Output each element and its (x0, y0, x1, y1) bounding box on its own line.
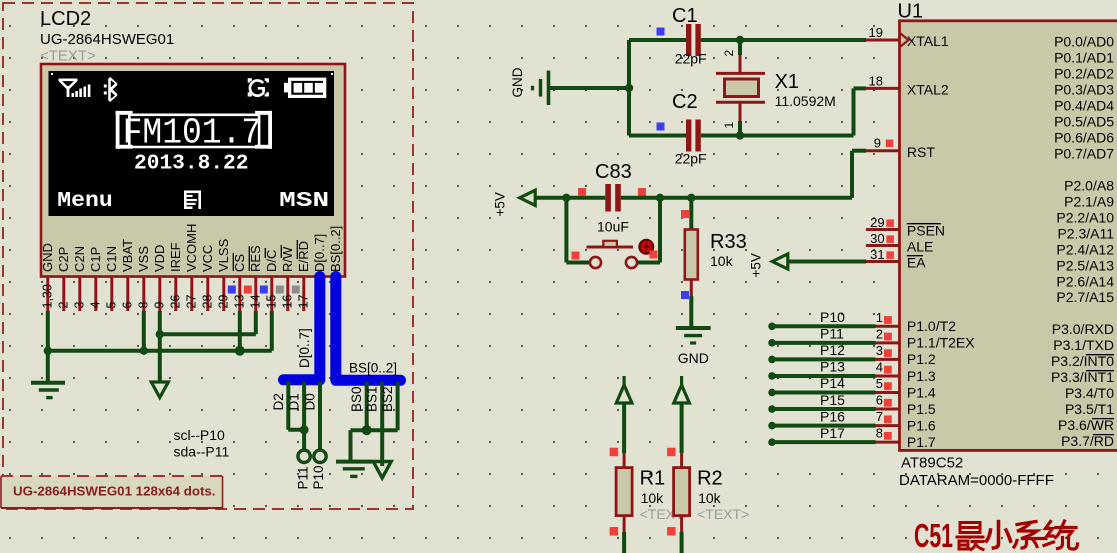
svg-text:X1: X1 (775, 71, 799, 93)
svg-text:16: 16 (280, 295, 294, 309)
LCD pin 13 CS (232, 253, 247, 311)
U1 reference (898, 1, 924, 23)
LCD pin 3 C2N (72, 246, 87, 311)
pin label P2.2/A10 (1056, 209, 1114, 225)
svg-text:P0.2/AD2: P0.2/AD2 (1054, 65, 1114, 81)
svg-text:R/W: R/W (280, 246, 295, 272)
marker R1 top (610, 448, 619, 457)
capacitor C83 (605, 184, 621, 212)
crystal X1 (716, 44, 765, 133)
LCD FM frame (116, 111, 272, 149)
svg-text:P0.6/AD6: P0.6/AD6 (1054, 129, 1114, 145)
pin 7 P1.6 (768, 408, 936, 433)
wire net B horizontal (160, 311, 256, 334)
wire +5V to C83 (535, 196, 605, 200)
note sda (174, 444, 230, 460)
LCD2 display module body (41, 64, 345, 277)
svg-text:2: 2 (722, 50, 736, 57)
LCD Menu text (57, 190, 113, 213)
pin label P0.6/AD6 (1054, 129, 1114, 145)
svg-text:P0.5/AD5: P0.5/AD5 (1054, 113, 1114, 129)
svg-text:P3.2/INT0: P3.2/INT0 (1051, 353, 1114, 369)
svg-text:P1.5: P1.5 (907, 401, 936, 417)
svg-text:R1: R1 (640, 468, 666, 490)
svg-text:29: 29 (870, 215, 884, 230)
LCD text placeholder (40, 48, 96, 65)
R1 reference (640, 468, 666, 490)
ground symbol LCD pin1 (31, 383, 65, 398)
marker button left (572, 252, 580, 260)
pin label P2.1/A9 (1064, 193, 1114, 209)
svg-text:18: 18 (869, 74, 883, 89)
svg-text:R33: R33 (710, 231, 747, 253)
svg-text:22pF: 22pF (675, 51, 707, 67)
label D2 (271, 393, 286, 410)
wire D1 (302, 382, 306, 450)
LCD pin 1,30 GND (40, 243, 55, 311)
capacitor C1 (686, 24, 701, 56)
svg-text:17: 17 (296, 295, 310, 309)
pin label P0.5/AD5 (1054, 113, 1114, 129)
pin 8 P1.7 (768, 425, 936, 450)
svg-text:3: 3 (72, 302, 86, 309)
svg-text:R2: R2 (697, 468, 723, 490)
pin 18 XTAL2 (866, 74, 949, 98)
svg-text:P2.2/A10: P2.2/A10 (1056, 209, 1114, 225)
svg-text:<TEXT>: <TEXT> (40, 48, 96, 65)
pin label P3.2/INT0 (1051, 353, 1114, 369)
svg-text:P3.5/T1: P3.5/T1 (1065, 401, 1114, 417)
svg-text:1: 1 (876, 310, 883, 325)
svg-text:9: 9 (152, 302, 166, 309)
marker C83 left (578, 188, 586, 196)
svg-text:6: 6 (120, 302, 134, 309)
svg-text:8: 8 (136, 302, 150, 309)
LCD FM101.7 text (123, 113, 262, 154)
bus D[0..7] (284, 277, 320, 380)
X1 pin1 number (722, 122, 736, 129)
svg-text:P0.1/AD1: P0.1/AD1 (1054, 49, 1114, 65)
subcircuit dashed border (3, 3, 413, 509)
svg-text:P1.6: P1.6 (907, 417, 936, 433)
R2 value (698, 490, 722, 506)
svg-text:+5V: +5V (493, 192, 508, 216)
wire button right leg (637, 198, 660, 263)
svg-text:AT89C52: AT89C52 (901, 455, 963, 472)
LCD list icon (184, 191, 201, 210)
LCD screen bluetooth icon (104, 77, 118, 102)
svg-text:10k: 10k (698, 490, 722, 506)
+5V terminal R2 (674, 376, 690, 403)
svg-text:P1.4: P1.4 (907, 384, 936, 400)
svg-text:10uF: 10uF (597, 219, 629, 235)
marker R2 bottom (667, 527, 676, 536)
schematic title C51 (914, 517, 1078, 553)
label BS1 (365, 386, 380, 412)
pin state marker 17 (292, 286, 300, 294)
capacitor C2 (686, 120, 701, 152)
svg-text:D0: D0 (303, 393, 318, 410)
svg-text:BS[0..2]: BS[0..2] (349, 361, 397, 376)
svg-text:10k: 10k (710, 253, 734, 269)
pin state marker 15 (260, 286, 268, 294)
svg-text:FM101.7: FM101.7 (123, 113, 262, 154)
svg-text:scl--P10: scl--P10 (174, 427, 226, 443)
pin label P2.7/A15 (1056, 289, 1114, 305)
C83 value (597, 219, 629, 235)
C1 reference (672, 5, 698, 27)
LCD pin 27 VCOMH (184, 224, 199, 311)
LCD pin 5 C1N (104, 246, 119, 311)
LCD2 reference label (40, 8, 91, 30)
subcircuit label box (1, 476, 223, 508)
wire D/C down (270, 311, 274, 351)
note scl (174, 427, 226, 443)
junction VSS/netA (140, 347, 148, 355)
svg-text:GND: GND (40, 243, 55, 272)
svg-text:P3.6/WR: P3.6/WR (1058, 417, 1114, 433)
svg-text:D/C: D/C (264, 250, 279, 272)
R1 text placeholder (640, 506, 692, 522)
X1 value (775, 93, 836, 109)
svg-text:VCOMH: VCOMH (184, 224, 199, 272)
svg-text:P3.3/INT1: P3.3/INT1 (1051, 369, 1114, 385)
svg-text:IREF: IREF (168, 242, 183, 272)
svg-text:P2.3/A11: P2.3/A11 (1057, 225, 1114, 241)
pushbutton (587, 240, 654, 268)
resistor R33 (685, 198, 698, 327)
svg-text:RST: RST (907, 144, 935, 160)
bus label D[0..7] (297, 328, 312, 368)
junction xtal pin1 (736, 131, 744, 139)
pin state marker 16 (276, 286, 284, 294)
pin label P3.3/INT1 (1051, 369, 1114, 385)
wire button left leg (566, 198, 589, 263)
marker R33 top (681, 210, 689, 218)
svg-text:CS: CS (232, 254, 247, 272)
svg-text:P1.3: P1.3 (907, 368, 936, 384)
svg-text:C1N: C1N (104, 246, 119, 272)
marker C83 right (638, 188, 646, 196)
op U1 body (900, 21, 1117, 451)
R33 reference (710, 231, 747, 253)
svg-text:BS[0..2]: BS[0..2] (328, 226, 343, 272)
X1 pin2 number (722, 50, 736, 57)
svg-text:MSN: MSN (279, 190, 329, 213)
bus label BS[0..2] (349, 361, 397, 376)
junction CS/netA (235, 346, 245, 356)
svg-text:XTAL1: XTAL1 (907, 33, 949, 49)
svg-text:7: 7 (876, 409, 883, 424)
GND label R33 (678, 350, 709, 366)
marker R2 top (667, 448, 676, 457)
wire C83 right (621, 196, 852, 200)
junction D2/D1 (300, 425, 309, 434)
svg-text:UG-2864HSWEG01 128x64 dots.: UG-2864HSWEG01 128x64 dots. (13, 484, 216, 499)
wire BS0 (365, 382, 369, 430)
pin label P0.4/AD4 (1054, 97, 1114, 113)
svg-text:P1.0/T2: P1.0/T2 (907, 318, 956, 334)
svg-text:VBAT: VBAT (120, 239, 135, 272)
svg-text:P15: P15 (820, 392, 845, 408)
svg-text:26: 26 (168, 295, 182, 309)
svg-text:LCD2: LCD2 (40, 8, 91, 30)
+5V terminal reset (493, 190, 536, 216)
junction VDD/netB (156, 330, 164, 338)
svg-text:P0.4/AD4: P0.4/AD4 (1054, 97, 1114, 113)
svg-text:XTAL2: XTAL2 (907, 82, 949, 98)
R2 text placeholder (697, 506, 749, 522)
svg-text:4: 4 (876, 359, 883, 374)
terminal P11 (298, 450, 310, 462)
svg-text:+5V: +5V (749, 253, 764, 277)
pin label P0.2/AD2 (1054, 65, 1114, 81)
svg-text:P17: P17 (820, 425, 845, 441)
resistor R2 (674, 403, 690, 553)
svg-text:P12: P12 (820, 342, 845, 358)
C83 reference (595, 161, 632, 183)
pin label P0.7/AD7 (1054, 145, 1114, 161)
svg-text:BS1: BS1 (365, 386, 380, 412)
svg-text:28: 28 (200, 295, 214, 309)
svg-text:P3.7/RD: P3.7/RD (1061, 433, 1114, 449)
LCD bus pin D[0..7] (312, 234, 327, 272)
svg-text:P2.0/A8: P2.0/A8 (1064, 177, 1114, 193)
pin label P3.6/WR (1058, 417, 1114, 433)
svg-text:1,30: 1,30 (40, 284, 54, 308)
LCD pin 29 VLSS (216, 238, 231, 311)
svg-text:2: 2 (56, 302, 70, 309)
marker button right (650, 251, 658, 259)
terminal arrow below VDD (151, 382, 168, 398)
wire VDD down to terminal (158, 311, 162, 382)
svg-text:C1: C1 (672, 5, 698, 27)
svg-text:P10: P10 (820, 309, 845, 325)
pin label P0.3/AD3 (1054, 81, 1114, 97)
svg-text:P0.3/AD3: P0.3/AD3 (1054, 81, 1114, 97)
pin label P2.5/A13 (1056, 257, 1114, 273)
svg-text:EA: EA (907, 255, 926, 271)
svg-text:BS2: BS2 (380, 386, 395, 412)
LCD value label (40, 31, 174, 48)
svg-text:P2.6/A14: P2.6/A14 (1056, 273, 1114, 289)
svg-text:<TEXT>: <TEXT> (697, 506, 749, 522)
wire C2 to XTAL2 (701, 88, 866, 135)
svg-text:ALE: ALE (907, 239, 933, 255)
svg-text:C2P: C2P (56, 247, 71, 272)
svg-text:P3.4/T0: P3.4/T0 (1065, 385, 1114, 401)
pin 1 P1.0/T2 (768, 309, 956, 334)
label D0 (303, 393, 318, 410)
terminal arrow BS1 (373, 462, 391, 479)
pin label P3.4/T0 (1065, 385, 1114, 401)
svg-text:P2.4/A12: P2.4/A12 (1056, 241, 1114, 257)
pin 29 PSEN (866, 215, 945, 239)
svg-text:P3.1/TXD: P3.1/TXD (1053, 337, 1114, 353)
svg-text:P3.0/RXD: P3.0/RXD (1052, 321, 1114, 337)
svg-text:1: 1 (722, 122, 736, 129)
label D1 (287, 393, 302, 410)
svg-text:P10: P10 (311, 465, 326, 489)
svg-text:P0.0/AD0: P0.0/AD0 (1054, 33, 1114, 49)
svg-text:C83: C83 (595, 161, 632, 183)
C1 value (675, 51, 707, 67)
wire CS down (238, 311, 242, 351)
X1 reference (775, 71, 799, 93)
U1 dataram (899, 472, 1054, 489)
pin 3 P1.2 (768, 342, 936, 367)
junction pin1/netA (44, 347, 52, 355)
svg-text:P11: P11 (820, 326, 844, 342)
wire bottom to C2 (629, 134, 686, 138)
wire net A horizontal (48, 349, 272, 353)
pin label P3.0/RXD (1052, 321, 1114, 337)
svg-text:RES: RES (248, 245, 263, 272)
pin label P0.1/AD1 (1054, 49, 1114, 65)
LCD pin 4 C1P (88, 247, 103, 311)
svg-text:27: 27 (184, 295, 198, 309)
svg-text:sda--P11: sda--P11 (174, 444, 230, 460)
LCD pin 16 R/W (280, 245, 295, 311)
svg-text:13: 13 (232, 295, 246, 309)
pin label P2.0/A8 (1064, 177, 1114, 193)
C2 reference (672, 91, 698, 113)
svg-text:10k: 10k (641, 490, 665, 506)
pin label P2.4/A12 (1056, 241, 1114, 257)
wire BS2 (396, 382, 400, 430)
pin 19 XTAL1 (866, 25, 949, 49)
ground symbol R33 (676, 328, 711, 343)
svg-text:2: 2 (876, 326, 883, 341)
svg-text:D1: D1 (287, 393, 302, 410)
svg-text:GND: GND (678, 350, 709, 366)
junction BS0 (362, 425, 372, 435)
svg-text:VCC: VCC (200, 245, 215, 272)
svg-text:P2.7/A15: P2.7/A15 (1056, 289, 1114, 305)
svg-text:P1.7: P1.7 (907, 434, 936, 450)
svg-text:9: 9 (874, 136, 881, 151)
svg-text:6: 6 (876, 393, 883, 408)
LCD pin 28 VCC (200, 245, 215, 311)
R1 value (641, 490, 665, 506)
svg-text:30: 30 (870, 231, 884, 246)
wire pin1 GND down (46, 311, 50, 382)
svg-text:P1.1/T2EX: P1.1/T2EX (907, 335, 975, 351)
svg-text:15: 15 (264, 295, 278, 309)
pin label P2.3/A11 (1057, 225, 1114, 241)
LCD pin 8 VSS (136, 246, 151, 311)
pin 4 P1.3 (768, 359, 936, 384)
junction xtal pin2 (736, 36, 744, 44)
svg-text:11.0592M: 11.0592M (775, 93, 836, 109)
svg-text:P0.7/AD7: P0.7/AD7 (1054, 145, 1114, 161)
svg-text:C1P: C1P (88, 247, 103, 272)
R2 reference (697, 468, 723, 490)
svg-text:P2.1/A9: P2.1/A9 (1064, 193, 1114, 209)
R33 value (710, 253, 734, 269)
LCD date text (134, 153, 249, 176)
svg-text:E/RD: E/RD (296, 241, 311, 272)
marker C1 (657, 28, 665, 36)
ground symbol BS net (336, 462, 372, 477)
svg-text:PSEN: PSEN (907, 223, 945, 239)
pin 30 ALE (866, 231, 933, 255)
junction xtal gnd (625, 84, 633, 92)
pin label P3.7/RD (1061, 433, 1114, 449)
wire EA (788, 260, 866, 264)
svg-text:VDD: VDD (152, 245, 167, 272)
wire GND to node (549, 86, 630, 90)
svg-text:P2.5/A13: P2.5/A13 (1056, 257, 1114, 273)
LCD screen (49, 71, 335, 216)
svg-text:14: 14 (248, 295, 262, 309)
svg-text:29: 29 (216, 295, 230, 309)
LCD bus pin BS[0..2] (328, 226, 343, 272)
wire C1 to xtal node (701, 38, 866, 42)
LCD pin 17 E/RD (296, 240, 311, 311)
pin label P3.5/T1 (1065, 401, 1114, 417)
pin state marker 14 (244, 286, 252, 294)
wire D2 (288, 382, 304, 430)
svg-text:Menu: Menu (57, 190, 113, 213)
svg-text:D[0..7]: D[0..7] (312, 234, 327, 272)
label BS0 (349, 386, 364, 412)
svg-text:DATARAM=0000-FFFF: DATARAM=0000-FFFF (899, 472, 1054, 489)
pin 31 EA (866, 247, 926, 271)
LCD pin 14 RES (248, 245, 263, 311)
LCD MSN text (279, 190, 329, 213)
svg-text:D2: D2 (271, 393, 286, 410)
wire D0 (318, 382, 322, 450)
junction button left (562, 194, 570, 202)
GND terminal left (510, 67, 549, 105)
svg-text:D[0..7]: D[0..7] (297, 328, 312, 368)
marker R33 bottom (681, 291, 689, 299)
+5V terminal EA (749, 253, 788, 277)
pin 9 RST (866, 136, 935, 161)
svg-text:UG-2864HSWEG01: UG-2864HSWEG01 (40, 31, 174, 48)
pin label P0.0/AD0 (1054, 33, 1114, 49)
pin 5 P1.4 (768, 375, 936, 400)
svg-text:C2N: C2N (72, 246, 87, 272)
marker C2 (657, 123, 665, 131)
svg-text:5: 5 (876, 376, 883, 391)
wire up to RST (852, 151, 866, 198)
marker R1 bottom (610, 527, 619, 536)
wire to C1 (629, 38, 686, 42)
LCD pin 9 VDD (152, 245, 167, 311)
pin label P2.6/A14 (1056, 273, 1114, 289)
svg-text:C2: C2 (672, 91, 698, 113)
LCD pin 6 VBAT (120, 239, 135, 311)
pin 6 P1.5 (768, 392, 936, 417)
svg-text:P13: P13 (820, 359, 845, 375)
resistor R1 (616, 403, 632, 553)
bus BS[0..2] (336, 277, 401, 381)
LCD pin 26 IREF (168, 242, 183, 311)
svg-text:8: 8 (876, 426, 883, 441)
svg-text:31: 31 (870, 247, 884, 262)
svg-text:5: 5 (104, 302, 118, 309)
svg-text:C51: C51 (914, 517, 953, 553)
LCD screen signal-strength icon (59, 79, 91, 98)
svg-text:19: 19 (869, 25, 883, 40)
svg-text:P11: P11 (295, 466, 310, 489)
wire BS net horizontal (351, 430, 398, 460)
svg-text:22pF: 22pF (675, 151, 707, 167)
LCD pin 15 D/C (264, 248, 279, 311)
+5V terminal R1 (616, 376, 632, 403)
